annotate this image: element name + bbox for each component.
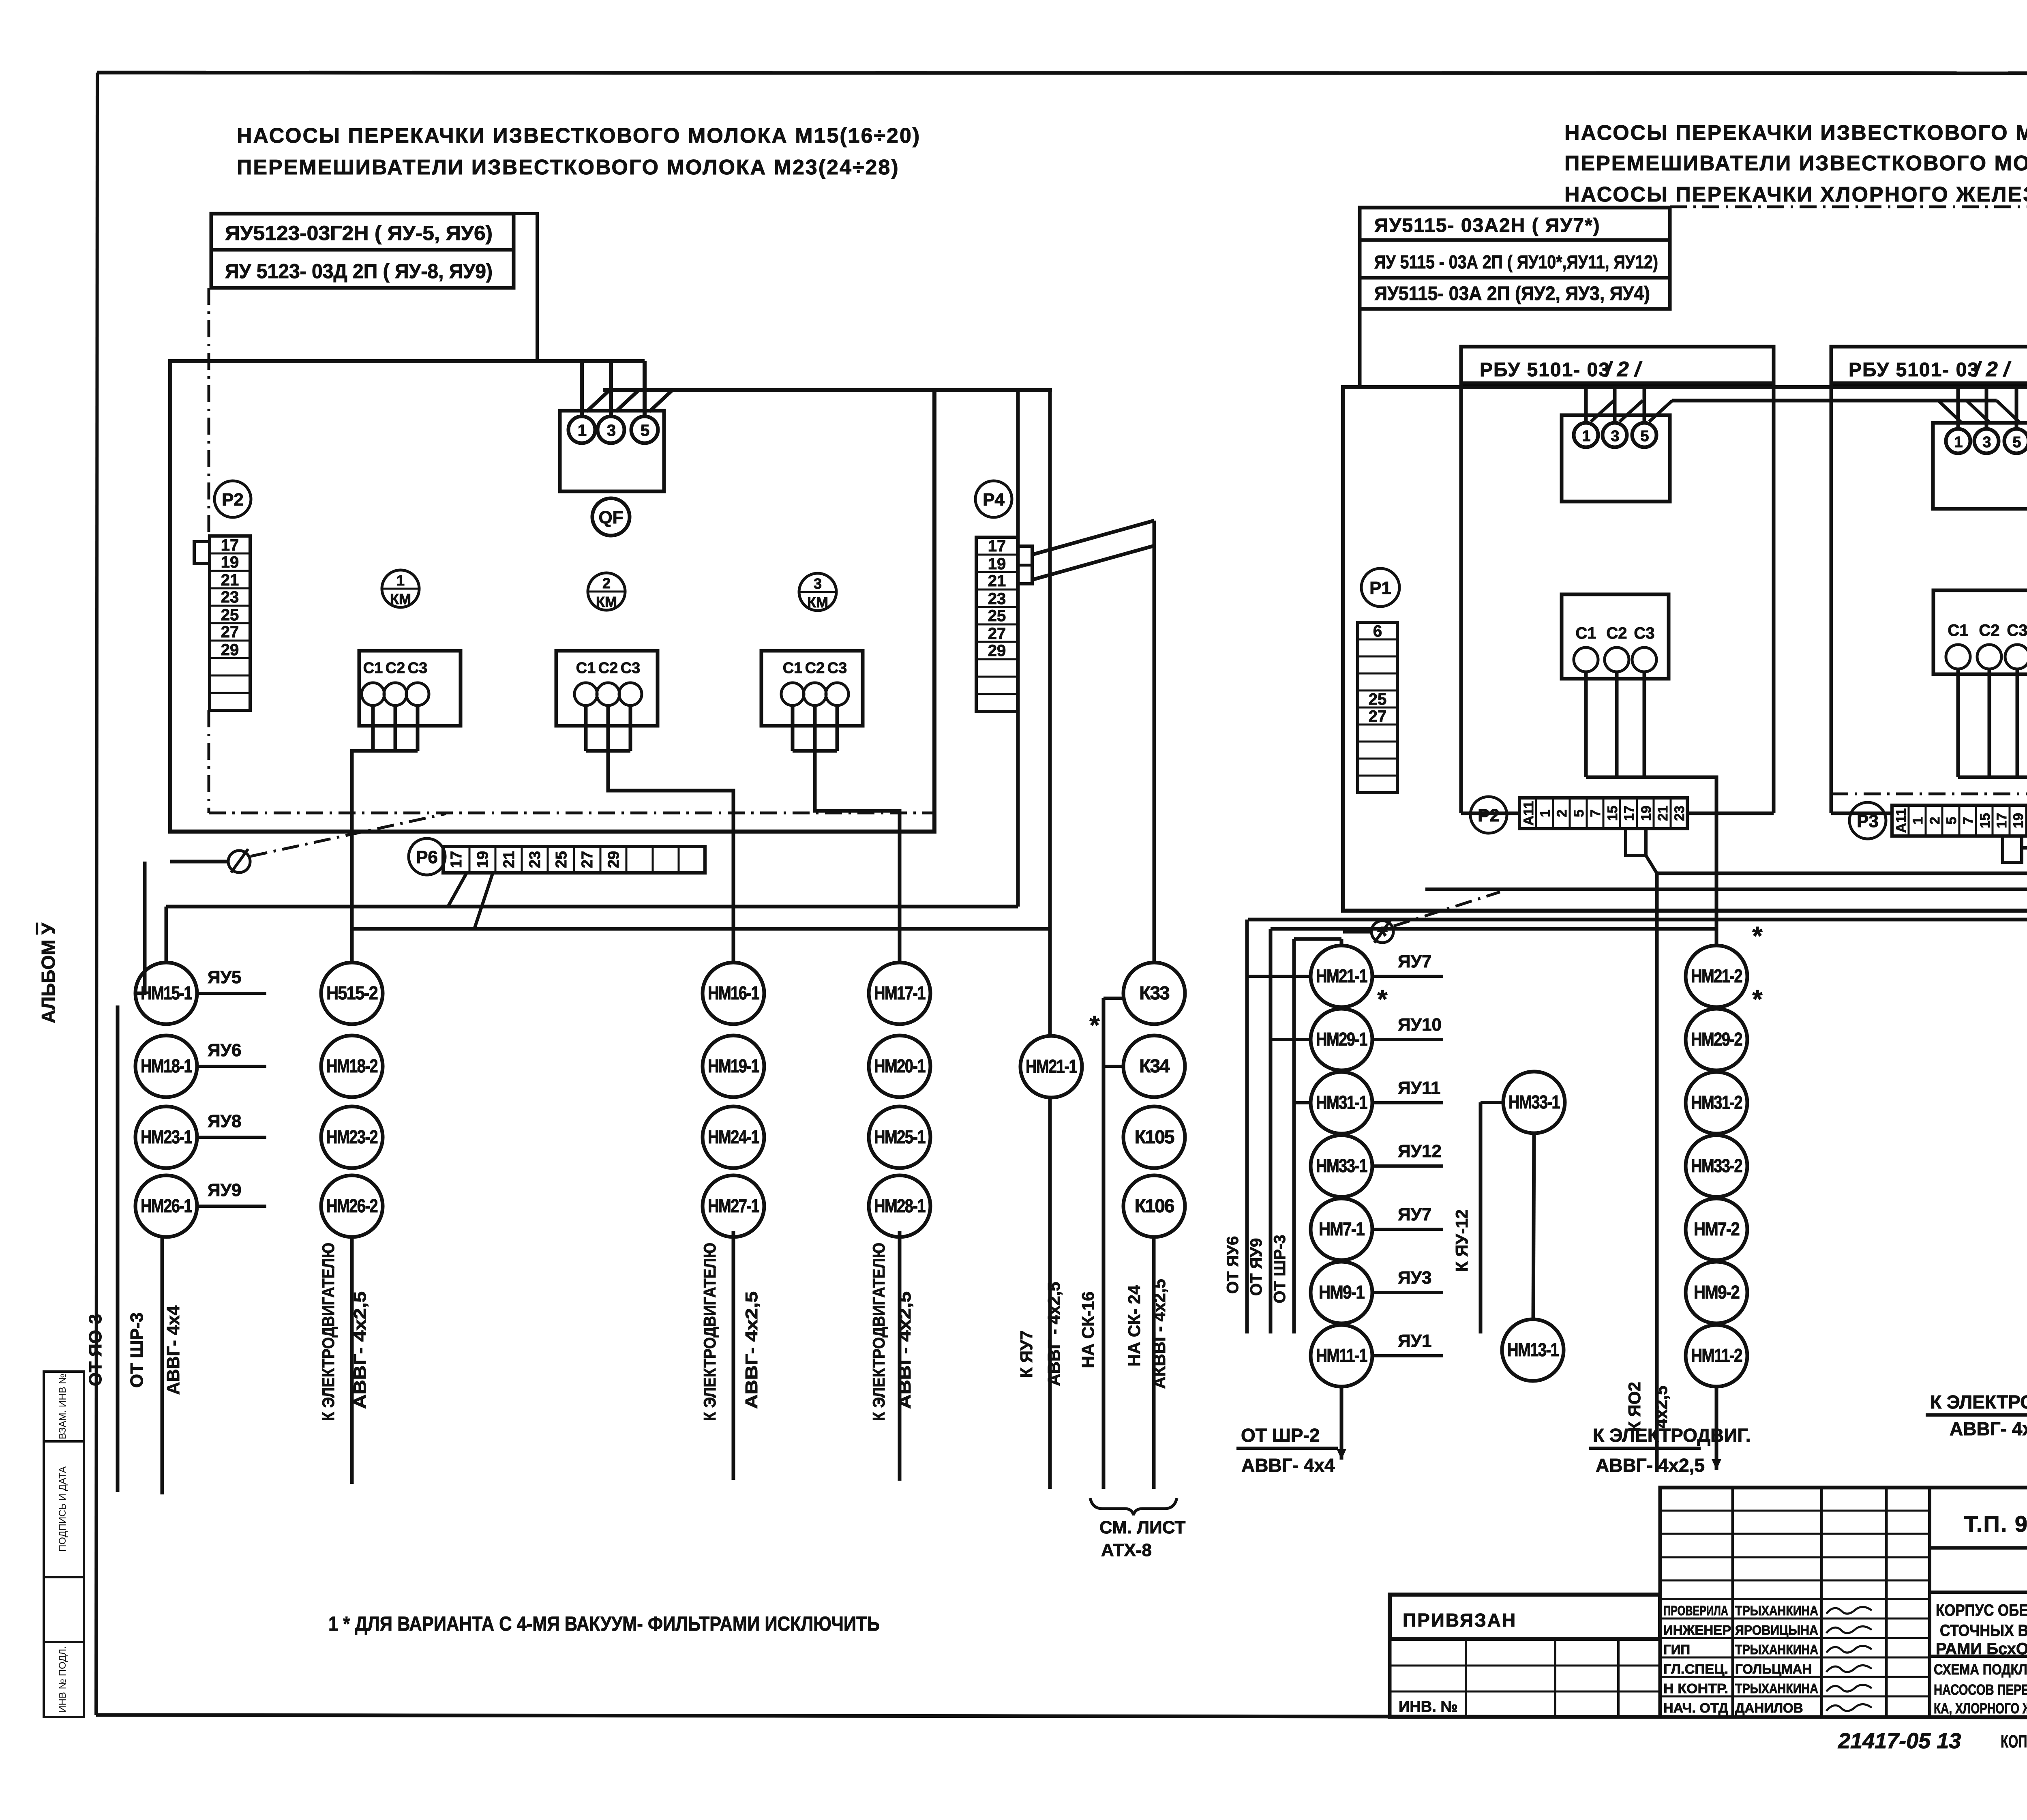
wire ЯУ box to cabinet [1358,309,1362,387]
wire diag tap cab1 c [1649,401,1672,422]
wire stub colA ЯУ7 [1372,975,1443,978]
svg-text:1: 1 [1954,434,1963,451]
terminal 3 of QF [598,416,624,443]
box ЯУ5115-03А2П b [1360,278,1670,309]
cabinet 1 right edge [1772,383,1776,813]
terminal strip label P6 [409,838,445,875]
svg-text:1 * ДЛЯ ВАРИАНТА С 4-МЯ: 1 * ДЛЯ ВАРИАНТА С 4-МЯ ВАКУУМ- ФИЛЬТРАМ… [328,1612,880,1635]
svg-text:19: 19 [1639,806,1654,821]
svg-text:С1: С1 [783,660,803,677]
svg-text:15: 15 [1605,806,1620,821]
svg-text:ТРЫХАНКИНА: ТРЫХАНКИНА [1735,1603,1818,1618]
wire collector cabinet 2 [1958,777,2027,946]
svg-text:НМ18-2: НМ18-2 [326,1055,377,1076]
svg-text:К106: К106 [1135,1195,1174,1216]
svg-text:НАСОСЫ ПЕРЕКАЧКИ ИЗВЕСТКОВОГ: НАСОСЫ ПЕРЕКАЧКИ ИЗВЕСТКОВОГО МОЛОКА М15… [237,124,921,148]
svg-text:НМ20-1: НМ20-1 [874,1055,926,1076]
svg-text:2: 2 [1927,817,1943,825]
svg-text:*: * [1378,921,1388,950]
svg-text:ТРЫХАНКИНА: ТРЫХАНКИНА [1735,1642,1818,1657]
svg-text:ПЕРЕМЕШИВАТЕЛИ ИЗВЕСТКОВОГО: ПЕРЕМЕШИВАТЕЛИ ИЗВЕСТКОВОГО МОЛОКА М23(2… [237,156,900,179]
svg-text:НМ23-1: НМ23-1 [141,1126,192,1147]
svg-text:/ 2 /: / 2 / [1605,358,1643,381]
svg-text:ПРИВЯЗАН: ПРИВЯЗАН [1403,1610,1517,1631]
svg-text:Н КОНТР.: Н КОНТР. [1663,1681,1728,1696]
wire to disconnect switch [170,860,228,864]
svg-text:НМ24-1: НМ24-1 [708,1126,759,1147]
svg-text:ЯУ9: ЯУ9 [208,1180,241,1200]
wire horizontal 2091 [2022,846,2027,850]
terminal C3 cabinet 2 [2005,622,2027,669]
bus right lower 3 [1294,937,1341,941]
svg-text:АВВГ- 4х4: АВВГ- 4х4 [163,1305,183,1395]
svg-text:НМ29-2: НМ29-2 [1691,1029,1742,1050]
svg-text:ЯРОВИЦЫНА: ЯРОВИЦЫНА [1735,1623,1818,1638]
svg-text:НМ33-2: НМ33-2 [1691,1155,1742,1176]
terminal 3 cabinet 2 [1974,429,1999,453]
svg-text:19: 19 [2011,813,2026,828]
bus right lower 1 [1248,918,2027,922]
wire P6 tap 2 [474,874,493,929]
svg-text:19: 19 [988,555,1006,573]
svg-text:19: 19 [474,851,491,868]
label box РБУ5101-03/2/ no.1 [1461,347,1774,383]
wire diag tap cab1 a [1591,401,1614,422]
svg-text:27: 27 [579,851,596,868]
svg-text:ОТ ЯУ9: ОТ ЯУ9 [1247,1238,1265,1296]
svg-text:К ЭЛЕКТРОДВИГАТЕЛЮ: К ЭЛЕКТРОДВИГАТЕЛЮ [700,1243,719,1421]
arrow col A [1337,1449,1346,1460]
wire stub НМ21-1 right [1247,975,1311,978]
wire box outline step [514,214,537,361]
wire stub colA ЯУ3 [1372,1291,1443,1294]
motor НМ21-2 colB [1686,945,1747,1007]
wire stub colA ЯУ12 [1372,1164,1443,1168]
wire KM3 collector [793,749,837,753]
motor НМ21-1 left [1020,1036,1082,1098]
terminal strip P6 [443,847,705,873]
svg-text:1: 1 [1910,817,1926,825]
svg-text:РБУ 5101- 03: РБУ 5101- 03 [1849,359,1979,381]
svg-text:ПЕРЕМЕШИВАТЕЛИ ИЗВЕСТКОВОГО: ПЕРЕМЕШИВАТЕЛИ ИЗВЕСТКОВОГО МОЛОКА М29 (… [1564,152,2027,175]
wire horizontal to К35 [1657,872,2027,875]
svg-text:5: 5 [1640,428,1649,445]
wire P6 tap 1 [448,874,466,907]
svg-text:21: 21 [988,572,1006,590]
svg-text:29: 29 [605,851,622,868]
svg-text:5: 5 [1571,810,1587,817]
svg-text:АЛЬБОМ У: АЛЬБОМ У [38,922,59,1023]
svg-text:КОПИРОВАЛ: ХЮППЕНЕН: КОПИРОВАЛ: ХЮППЕНЕН [2001,1732,2027,1751]
signature squiggle 3 [1826,1646,1872,1653]
wire C1 cab1 down [1584,672,1588,777]
svg-text:К ЭЛЕКТРОДВИГ.: К ЭЛЕКТРОДВИГ. [1593,1425,1751,1446]
connector divider [1018,564,1032,567]
disconnect switch right [1371,919,1393,943]
svg-text:P2: P2 [1478,806,1500,825]
svg-text:С1: С1 [1948,622,1968,639]
cable ОТ ЯУ9 [1269,929,1273,1333]
wire C3 cab2 down [2016,669,2019,777]
svg-text:К ЭЛЕКТРОДВИГАТЕЛЮ: К ЭЛЕКТРОДВИГАТЕЛЮ [319,1243,338,1421]
svg-text:С3: С3 [621,660,641,677]
svg-text:ОТ ШР-3: ОТ ШР-3 [127,1312,147,1388]
svg-text:21: 21 [221,571,239,589]
terminal strip P2 left [210,536,250,710]
wire stub НМ18-1 [197,1065,266,1068]
svg-text:23: 23 [1672,806,1687,821]
terminal strip label P1 [1361,568,1399,607]
svg-text:27: 27 [1369,707,1387,725]
wire C2 cab1 down [1615,672,1619,777]
motor НМ24-1 [703,1106,764,1168]
svg-text:*: * [1090,1010,1100,1040]
svg-text:КА, ХЛОРНОГО ЖЕЛЕЗА И ПЕРЕМ: КА, ХЛОРНОГО ЖЕЛЕЗА И ПЕРЕМЕШИВАТЕЛИ [1934,1700,2027,1717]
wire diagonal tap 1 [587,389,611,412]
svg-text:25: 25 [988,607,1006,625]
svg-text:ВЗАМ. ИНВ №: ВЗАМ. ИНВ № [57,1374,68,1439]
box ЯУ5123-03Г2Н [211,214,514,250]
svg-text:ДАНИЛОВ: ДАНИЛОВ [1735,1700,1803,1715]
svg-text:К33: К33 [1139,982,1169,1003]
svg-text:НМ11-2: НМ11-2 [1691,1345,1742,1366]
svg-text:С3: С3 [408,660,428,677]
left margin cells [44,1372,84,1717]
terminal C2 of KM2 [597,660,619,705]
svg-text:АВВГ- 4х2,5: АВВГ- 4х2,5 [1950,1418,2027,1439]
wire diag tap cab2 b [1967,401,1990,422]
underline К ЭЛЕКТРОДВИГ [1589,1447,1701,1450]
wire KM1 C1 down [371,705,375,751]
svg-text:НМ19-1: НМ19-1 [708,1055,759,1076]
terminal C3 of KM3 [826,660,849,705]
svg-text:ЯУ10: ЯУ10 [1398,1015,1442,1035]
svg-text:С1: С1 [576,660,596,677]
svg-text:5: 5 [641,422,649,439]
terminal 1 cabinet 1 [1574,423,1598,447]
svg-text:3: 3 [1982,434,1991,451]
svg-text:НМ26-1: НМ26-1 [141,1195,192,1216]
motor НМ28-1 [869,1175,930,1237]
box ЯУ5123-03Д2П [211,250,514,288]
terminal 5 cabinet 2 [2004,429,2027,453]
svg-text:25: 25 [1369,690,1387,708]
signature squiggle 1 [1826,1607,1872,1614]
cable НМ21-1 left down [1048,1098,1052,1489]
wire diag tap cab2 a [1938,401,1961,422]
contactor box cabinet 2 [1933,590,2027,674]
contactor KM3 box [761,651,863,726]
arrow col B [1712,1459,1721,1470]
terminal C3 of KM1 [406,660,429,705]
bus left lower 2 [352,927,1050,931]
svg-text:АКВВГ- 4х2,5: АКВВГ- 4х2,5 [1150,1279,1169,1389]
terminal strip P2 right [1519,798,1687,829]
wire phase 3 cab1 [1613,387,1617,423]
contactor KM2 box [556,651,658,726]
svg-text:НМ21-1: НМ21-1 [1026,1056,1077,1077]
svg-text:НМ9-2: НМ9-2 [1694,1282,1739,1303]
svg-text:НМ27-1: НМ27-1 [708,1195,759,1216]
wire KM1 C2 down [394,705,397,751]
cable ОТ ЯУ6 [1245,920,1249,1333]
svg-text:19: 19 [221,553,239,571]
connector on P2 strip [194,542,210,564]
motor НМ20-1 [869,1035,930,1097]
wire KM1 collector [373,749,418,753]
svg-text:Т.П. 902-5 -36.86: Т.П. 902-5 -36.86 [1964,1511,2027,1537]
wire stub НМ15-1 [197,992,266,995]
wire stub НМ29-1 [1271,1038,1311,1041]
svg-text:23: 23 [221,588,239,606]
svg-text:ЯУ7: ЯУ7 [1398,952,1431,971]
dash-dot boundary right top [1670,206,2027,208]
terminal strip P1 [1358,622,1397,793]
svg-text:АВВГ- 4х2,5: АВВГ- 4х2,5 [742,1291,761,1409]
title block frame [1660,1488,2027,1717]
svg-text:ПРОВЕРИЛА: ПРОВЕРИЛА [1663,1603,1728,1618]
svg-text:2: 2 [602,575,611,592]
connector on P4 strip [1018,546,1032,584]
svg-text:НМ16-1: НМ16-1 [708,982,759,1003]
svg-text:НМ11-1: НМ11-1 [1316,1345,1367,1366]
svg-text:С2: С2 [805,660,825,677]
terminal strip label P3 right [1849,802,1886,839]
motor НМ31-2 colB [1686,1072,1747,1134]
svg-text:1: 1 [1538,810,1553,817]
breaker QF label circle [592,498,630,536]
svg-text:P6: P6 [416,847,438,867]
svg-text:НМ31-2: НМ31-2 [1691,1092,1742,1113]
svg-text:К ЭЛЕКТРОДВИГАТЕЛЮ: К ЭЛЕКТРОДВИГАТЕЛЮ [1930,1391,2027,1413]
relay К106 [1123,1175,1185,1237]
terminal C1 cabinet 1 [1574,624,1598,672]
svg-text:17: 17 [448,851,465,868]
svg-text:25: 25 [553,851,570,868]
svg-text:НА СК-16: НА СК-16 [1078,1292,1097,1368]
motor НМ7-1 colA [1311,1198,1372,1260]
wire switch to НМ15-1 [136,862,145,993]
dash-dot boundary right inner horizontal [1831,793,2027,795]
svg-text:7: 7 [1961,817,1976,825]
svg-text:К ЯУ7: К ЯУ7 [1017,1331,1036,1378]
svg-text:1: 1 [578,422,587,439]
wire stub НМ33-1 standalone [1481,1101,1504,1104]
svg-text:27: 27 [221,623,239,641]
wire C2 cab2 down [1988,669,1991,777]
svg-text:НМ28-1: НМ28-1 [874,1195,926,1216]
terminal C1 of KM3 [781,660,804,705]
motor НМ23-1 [135,1106,197,1168]
svg-text:НМ33-1: НМ33-1 [1316,1155,1367,1176]
svg-text:ЯУ8: ЯУ8 [208,1111,241,1131]
terminal C2 of KM1 [384,660,407,705]
wire QF feed phase 1 [580,361,584,416]
motor НМ15-1 [135,963,197,1024]
svg-text:КМ: КМ [807,594,828,611]
wire phase 3 cab2 [1985,387,1988,429]
svg-text:НМ21-2: НМ21-2 [1691,965,1742,986]
input terminal box cabinet 1 [1562,415,1670,502]
wire stub colA ЯУ1 [1372,1354,1443,1357]
svg-text:НМ13-1: НМ13-1 [1507,1339,1559,1360]
svg-text:НМ7-2: НМ7-2 [1694,1218,1739,1239]
wire bus to НМ15-1 column [165,907,168,963]
motor НМ26-1 [135,1175,197,1237]
svg-text:ЯУ 5123- 03Д 2П ( ЯУ-8, ЯУ9): ЯУ 5123- 03Д 2П ( ЯУ-8, ЯУ9) [225,260,493,283]
underline colC [1926,1413,2027,1417]
signature squiggle 6 [1826,1704,1872,1711]
wire C3 cab1 down [1643,672,1646,777]
cable НА СК-24 left [1152,1237,1156,1489]
cabinet 1 left edge [1459,383,1463,813]
svg-text:А11: А11 [1894,808,1909,833]
svg-text:Н515-2: Н515-2 [326,982,377,1003]
motor НМ27-1 [703,1175,764,1237]
motor НМ13-1 [1502,1319,1564,1381]
wire KM3 C2 down [813,705,817,751]
svg-text:НМ7-1: НМ7-1 [1319,1218,1365,1239]
svg-text:НА СК- 24: НА СК- 24 [1125,1285,1144,1366]
bus left lower 1 [166,905,1018,909]
svg-text:QF: QF [598,508,623,527]
terminal C2 cabinet 2 [1977,622,2001,669]
svg-text:СХЕМА ПОДКЛЮЧЕНИЯ ОБОРУДОВАН: СХЕМА ПОДКЛЮЧЕНИЯ ОБОРУДОВАНИЯ [1934,1661,2027,1678]
svg-text:С2: С2 [386,660,405,677]
svg-text:ИНВ № ПОДЛ.: ИНВ № ПОДЛ. [57,1646,68,1713]
svg-text:СТОЧНЫХ ВОД С ВАКУУМ- ФИЛЬ: СТОЧНЫХ ВОД С ВАКУУМ- ФИЛЬТ- [1940,1622,2027,1640]
terminal C1 of KM1 [362,660,384,705]
motor НМ33-2 colB [1686,1135,1747,1197]
motor НМ9-2 colB [1686,1262,1747,1323]
wire phase 1 cab2 [1956,387,1960,429]
left cabinet outline [170,361,934,832]
svg-text:НМ23-2: НМ23-2 [326,1126,377,1147]
motor НМ18-2 [321,1035,383,1097]
connector below P3 right [2003,836,2022,862]
svg-text:ТРЫХАНКИНА: ТРЫХАНКИНА [1735,1681,1818,1696]
cable col НМ28-1 down [898,1231,902,1481]
svg-text:5: 5 [1944,817,1959,825]
cable ОТ ШР-3 right [1292,939,1296,1333]
svg-text:3: 3 [607,422,615,439]
svg-text:P4: P4 [983,490,1005,510]
wire phase 5 cab2 [2015,387,2018,429]
svg-text:21: 21 [501,851,518,868]
cable К ЯО2 [1655,873,1659,1472]
wire KM2 C1 down [584,705,588,751]
cable К ЯУ-12 [1479,1102,1483,1333]
box ПРИВЯЗАН [1390,1595,1660,1639]
wire KM1 to column НМ15-2 [352,751,373,963]
relay К33 [1123,963,1185,1024]
wire QF feed phase 3 [609,361,613,416]
motor НМ21-1 colA [1311,945,1372,1007]
motor НМ18-1 [135,1035,197,1097]
svg-text:НМ33-1: НМ33-1 [1508,1091,1560,1113]
input terminal box cabinet 2 [1933,423,2027,509]
svg-text:К34: К34 [1139,1055,1170,1076]
wire diag tap cab1 b [1620,401,1643,422]
svg-text:21: 21 [1655,806,1671,821]
svg-text:НМ17-1: НМ17-1 [874,982,926,1003]
svg-text:С3: С3 [827,660,847,677]
motor НМ17-1 [869,963,930,1024]
cable col НМ27-1 down [732,1231,735,1480]
dash-dot link right switch [1394,892,1500,926]
svg-text:НМ21-1: НМ21-1 [1316,965,1367,986]
terminal 3 cabinet 1 [1603,423,1627,447]
svg-text:15: 15 [1978,813,1993,828]
wire KM1 C3 down [416,705,420,751]
svg-text:РАМИ БсхОУ- 40 -30: РАМИ БсхОУ- 40 -30 [1936,1640,2027,1658]
motor НМ29-1 colA [1311,1009,1372,1070]
wire KM2 C3 down [629,705,632,751]
label box РБУ5101-03/2/ no.2 [1831,347,2027,383]
motor НМ11-1 colA [1311,1325,1372,1387]
underline ОТ ШР-2 [1236,1447,1338,1450]
wire stub colA ЯУ10 [1372,1038,1443,1041]
svg-text:23: 23 [988,590,1006,608]
svg-text:С3: С3 [2007,622,2027,639]
disconnect switch left [228,849,250,872]
cabinet 1 bottom right segment [1687,812,1774,815]
wire to НМ21-1 right column [1340,939,1343,946]
svg-text:29: 29 [221,641,239,659]
svg-text:НМ31-1: НМ31-1 [1316,1092,1367,1113]
terminal C2 cabinet 1 [1605,624,1629,672]
svg-text:РБУ 5101- 03: РБУ 5101- 03 [1480,359,1610,381]
svg-text:ЯУ5115- 03А 2П (ЯУ2, ЯУ3, ЯУ: ЯУ5115- 03А 2П (ЯУ2, ЯУ3, ЯУ4) [1374,283,1650,304]
wire QF bus branch to lower bus [1016,390,1020,907]
svg-text:АТХ-8: АТХ-8 [1101,1540,1152,1560]
signature squiggle 5 [1826,1685,1872,1691]
wire diagonal tap 3 [649,389,673,412]
wire connector to cable [1646,855,1657,873]
motor Н515-2 [321,963,383,1024]
lower-left grid of title block [1390,1639,1660,1717]
wire KM2 C2 down [606,705,610,751]
svg-text:АВВГ- 4х2,5: АВВГ- 4х2,5 [1596,1455,1705,1476]
motor НМ25-1 [869,1106,930,1168]
svg-text:К ЯУ-12: К ЯУ-12 [1452,1209,1471,1272]
svg-text:К ЭЛЕКТРОДВИГАТЕЛЮ: К ЭЛЕКТРОДВИГАТЕЛЮ [869,1243,888,1421]
cable col B down [1715,1386,1718,1470]
svg-text:ГИП: ГИП [1663,1642,1690,1657]
wire KM3 C3 down [836,705,839,751]
cable НА СК-16 left [1102,998,1106,1489]
svg-text:ЯУ 5115 - 03А 2П ( ЯУ10*,ЯУ11,: ЯУ 5115 - 03А 2П ( ЯУ10*,ЯУ11, ЯУ12) [1374,251,1658,272]
contactor KM1 box [359,651,461,726]
motor НМ23-2 [321,1106,383,1168]
box ЯУ5115-03А2П a [1360,240,1670,278]
terminal strip label P2 right [1470,797,1507,833]
cabinet 2 bottom left segment [1831,812,1892,815]
motor НМ16-1 [703,963,764,1024]
motor НМ7-2 colB [1686,1198,1747,1260]
wire stub colA ЯУ11 [1372,1101,1443,1104]
contactor box cabinet 1 [1562,594,1669,679]
svg-text:С1: С1 [363,660,383,677]
wire KM2 collector [586,749,630,753]
svg-text:ИНЖЕНЕР: ИНЖЕНЕР [1663,1623,1731,1638]
svg-text:/ 2 /: / 2 / [1973,358,2012,381]
terminal strip label P2 left [214,481,251,517]
cable col НМ26-2 down [350,1237,354,1484]
svg-text:P1: P1 [1369,578,1391,598]
svg-text:*: * [1753,921,1763,950]
svg-text:ЯУ5123-03Г2Н ( ЯУ-5, ЯУ6): ЯУ5123-03Г2Н ( ЯУ-5, ЯУ6) [225,222,493,244]
